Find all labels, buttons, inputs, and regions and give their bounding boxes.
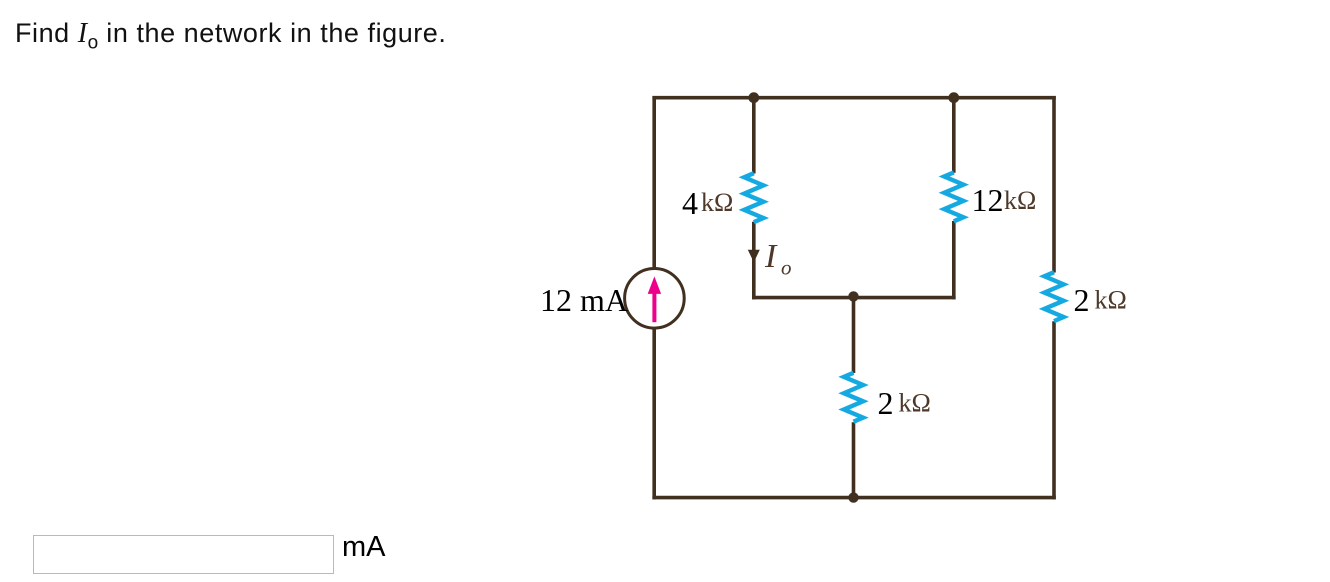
wire: left vertical lower (current source bottom to bottom-left corner)	[652, 328, 656, 499]
node: middle junction dot	[848, 291, 858, 301]
svg-text:I: I	[764, 238, 778, 275]
wire: right vertical lower (2k resistor to bottom-right corner)	[1052, 321, 1056, 499]
svg-text:kΩ: kΩ	[1095, 285, 1127, 314]
node: bottom junction dot	[848, 492, 858, 502]
svg-text:kΩ: kΩ	[899, 388, 931, 417]
wire: center branch lower (bottom 2k resistor to bottom wire)	[852, 422, 856, 499]
wire: bottom horizontal	[652, 496, 1055, 500]
wire: middle horizontal	[752, 296, 956, 300]
svg-text:12 mA: 12 mA	[540, 282, 628, 318]
node: top-right junction dot	[948, 92, 959, 103]
resistor R3 right 2kOhm zigzag	[1044, 272, 1063, 321]
Io arrowhead on 4k branch (pointing down)	[748, 250, 760, 262]
node: top-left junction dot	[748, 92, 759, 103]
svg-text:kΩ: kΩ	[1004, 186, 1036, 215]
wire: right vertical upper (top-right corner to 2k resistor)	[1052, 96, 1056, 273]
resistor R2 12kOhm zigzag	[944, 172, 963, 221]
svg-text:4: 4	[682, 185, 698, 221]
wire: 12k branch lower (12k resistor to middle wire)	[952, 221, 956, 299]
wire: center branch upper (middle node to bottom 2k resistor)	[852, 298, 856, 373]
label: right 2 kOhm value	[1074, 282, 1127, 318]
resistor R4 bottom 2kOhm zigzag	[844, 373, 863, 422]
label: 12 kOhm value	[972, 182, 1037, 218]
wire: top horizontal	[652, 96, 1055, 100]
current source I1 circle	[625, 269, 685, 329]
wire: 4k branch upper (top node to 4k resistor)	[752, 98, 756, 174]
svg-text:2: 2	[1074, 282, 1090, 318]
wire: 4k branch lower with Io (4k resistor to middle wire)	[752, 222, 756, 300]
resistor R1 4kOhm zigzag	[744, 173, 763, 222]
label: bottom 2 kOhm value	[878, 385, 931, 421]
svg-text:kΩ: kΩ	[701, 188, 733, 217]
svg-text:o: o	[781, 256, 792, 280]
current source arrow (magenta, pointing up)	[648, 276, 661, 322]
problem statement text	[15, 18, 446, 54]
label: 4 kOhm value	[682, 185, 733, 221]
label: Io current	[764, 238, 792, 279]
wire: left vertical upper (top-left corner to current source top)	[652, 96, 656, 269]
answer input box	[33, 535, 334, 574]
wire: 12k branch upper (top node to 12k resistor)	[952, 98, 956, 173]
svg-text:2: 2	[878, 385, 894, 421]
answer unit label mA	[342, 531, 386, 564]
svg-text:12: 12	[972, 182, 1004, 218]
